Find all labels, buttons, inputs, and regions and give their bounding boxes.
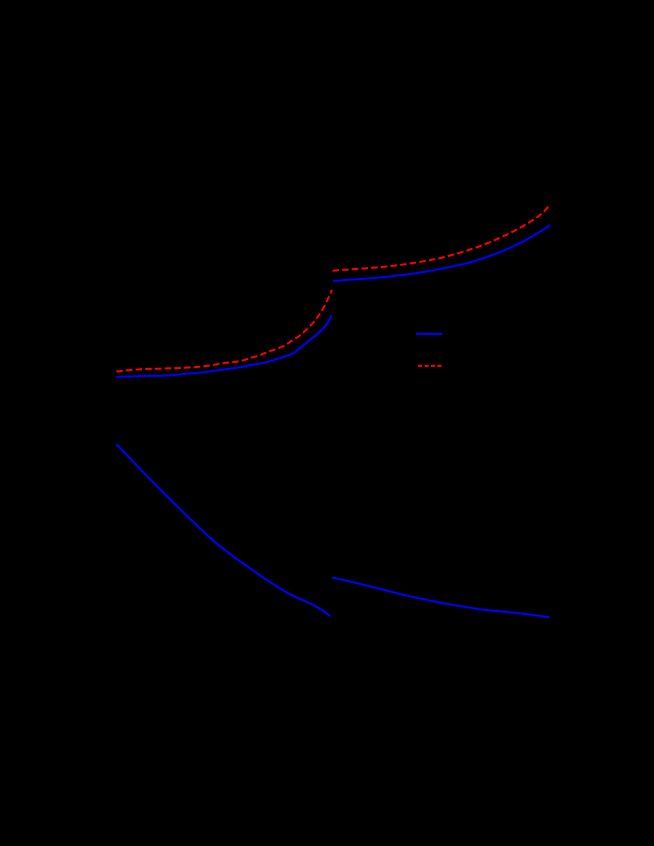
curve: top subplot, blue solid, left branch	[116, 315, 331, 377]
legend swatch: blue solid line	[416, 333, 442, 335]
curve: bottom subplot, blue solid, left branch	[116, 444, 330, 617]
curve: top subplot, red dashed, right branch	[333, 205, 550, 271]
curve: top subplot, red dashed, left branch	[116, 290, 332, 372]
curve: top subplot, blue solid, right branch	[333, 225, 550, 281]
curve: bottom subplot, blue solid, right branch	[332, 578, 550, 618]
legend swatch: red dashed line	[418, 365, 442, 367]
